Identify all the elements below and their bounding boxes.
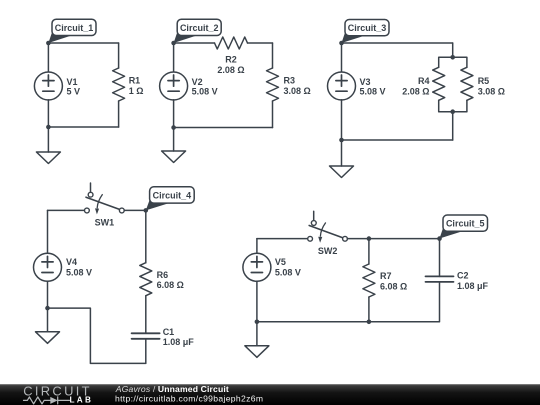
wire xyxy=(342,139,453,141)
label R6 value xyxy=(157,270,184,290)
label R1 value xyxy=(129,75,144,96)
node top Circuit_4 xyxy=(144,208,149,213)
svg-text:Circuit_2: Circuit_2 xyxy=(180,23,219,33)
svg-text:5 V: 5 V xyxy=(67,86,81,96)
logo waveform xyxy=(24,397,70,404)
wire xyxy=(48,42,118,44)
svg-text:6.08 Ω: 6.08 Ω xyxy=(380,281,407,291)
node bottom V5 xyxy=(255,320,260,325)
wire xyxy=(173,43,175,72)
wire xyxy=(124,209,146,211)
svg-text:C1: C1 xyxy=(163,327,175,337)
wire xyxy=(48,209,85,211)
svg-text:R7: R7 xyxy=(380,271,392,281)
svg-text:R4: R4 xyxy=(418,76,430,86)
wire xyxy=(47,100,49,127)
node R7 bottom xyxy=(367,320,372,325)
voltage source V1 xyxy=(34,72,62,100)
svg-text:SW1: SW1 xyxy=(95,218,115,228)
label R2 value xyxy=(217,55,244,75)
switch SW1 xyxy=(85,183,125,214)
label V3 value xyxy=(360,77,386,97)
svg-text:LAB: LAB xyxy=(70,396,94,405)
svg-text:1 Ω: 1 Ω xyxy=(129,86,144,96)
node parallel top xyxy=(450,55,455,60)
wire xyxy=(173,100,175,128)
ground xyxy=(36,308,60,343)
label R7 value xyxy=(380,271,407,291)
node label Circuit_5 xyxy=(440,215,488,239)
wire xyxy=(452,112,454,140)
wire xyxy=(145,210,147,262)
node top Circuit_3 xyxy=(339,41,344,46)
voltage source V4 xyxy=(34,253,62,281)
svg-text:R2: R2 xyxy=(225,55,237,65)
node label Circuit_3 xyxy=(342,20,390,44)
resistor R7 xyxy=(363,264,375,297)
wire xyxy=(272,43,274,68)
label R3 value xyxy=(284,75,311,96)
svg-text:5.08 V: 5.08 V xyxy=(360,86,386,96)
node bottom V1 xyxy=(46,125,51,130)
ground xyxy=(36,127,60,164)
node label Circuit_2 xyxy=(174,19,222,43)
svg-text:3.08 Ω: 3.08 Ω xyxy=(478,87,505,97)
svg-text:R6: R6 xyxy=(157,270,169,280)
wire xyxy=(341,100,343,140)
svg-text:6.08 Ω: 6.08 Ω xyxy=(157,280,184,290)
resistor R6 xyxy=(140,263,152,296)
svg-text:Circuit_5: Circuit_5 xyxy=(446,219,485,229)
label V2 value xyxy=(192,77,218,97)
wire xyxy=(48,308,146,363)
wire xyxy=(257,282,440,322)
wire xyxy=(452,43,454,57)
ground xyxy=(330,140,354,178)
wire xyxy=(47,210,49,253)
svg-text:3.08 Ω: 3.08 Ω xyxy=(284,86,311,96)
svg-text:5.08 V: 5.08 V xyxy=(66,267,92,277)
resistor R2 xyxy=(215,37,248,49)
svg-text:Circuit_1: Circuit_1 xyxy=(55,23,94,33)
wire xyxy=(256,239,258,254)
wire xyxy=(257,238,308,240)
svg-text:2.08 Ω: 2.08 Ω xyxy=(217,65,244,75)
node bottom V3 xyxy=(339,138,344,143)
svg-text:Circuit_3: Circuit_3 xyxy=(348,23,387,33)
svg-text:5.08 V: 5.08 V xyxy=(192,86,218,96)
voltage source V3 xyxy=(328,72,356,100)
wire xyxy=(341,43,343,72)
svg-text:5.08 V: 5.08 V xyxy=(275,267,301,277)
wire xyxy=(368,239,370,264)
capacitor C1 xyxy=(132,333,160,339)
wire xyxy=(118,43,120,68)
wire xyxy=(47,43,49,72)
svg-text:R5: R5 xyxy=(478,76,490,86)
wire xyxy=(368,297,370,322)
wire xyxy=(47,281,49,308)
resistor R5 xyxy=(461,67,473,100)
node bottom V4 xyxy=(45,306,50,311)
svg-text:1.08 μF: 1.08 μF xyxy=(457,281,489,291)
wire xyxy=(174,42,215,44)
wire parallel bracket top xyxy=(439,57,467,67)
label C1 value xyxy=(163,327,195,347)
svg-text:R1: R1 xyxy=(129,75,141,85)
node top Circuit_2 xyxy=(171,41,176,46)
wire xyxy=(248,42,273,44)
ground xyxy=(162,128,186,163)
svg-text:1.08 μF: 1.08 μF xyxy=(163,337,195,347)
wire xyxy=(272,101,274,128)
resistor R1 xyxy=(113,68,125,101)
node label Circuit_1 xyxy=(48,19,96,43)
ground xyxy=(245,322,269,358)
label V1 value xyxy=(67,77,81,97)
svg-text:R3: R3 xyxy=(284,75,296,85)
label V4 value xyxy=(66,257,92,277)
svg-text:V1: V1 xyxy=(67,77,78,87)
voltage source V2 xyxy=(160,72,188,100)
svg-text:V2: V2 xyxy=(192,77,203,87)
wire xyxy=(256,281,258,322)
wire parallel bracket bottom xyxy=(439,100,467,111)
svg-text:V5: V5 xyxy=(275,257,286,267)
wire xyxy=(118,101,120,127)
node parallel bottom xyxy=(450,109,455,114)
switch SW2 xyxy=(308,211,348,242)
svg-text:V3: V3 xyxy=(360,77,371,87)
node bottom V2 xyxy=(171,125,176,130)
label R5 value xyxy=(478,76,505,97)
wire xyxy=(174,127,273,129)
wire xyxy=(342,42,453,44)
resistor R4 xyxy=(433,67,445,100)
node label Circuit_4 xyxy=(146,187,194,211)
wire xyxy=(347,238,439,240)
wire xyxy=(48,126,118,128)
footer bar xyxy=(0,384,540,405)
node R7 top xyxy=(367,236,372,241)
label C2 value xyxy=(457,271,489,292)
svg-text:V4: V4 xyxy=(66,257,77,267)
svg-text:C2: C2 xyxy=(457,271,469,281)
wire xyxy=(145,296,147,334)
node top Circuit_5 xyxy=(437,236,442,241)
svg-text:2.08 Ω: 2.08 Ω xyxy=(402,87,429,97)
svg-text:http://circuitlab.com/c99bajep: http://circuitlab.com/c99bajeph2z6m xyxy=(115,393,263,403)
svg-text:SW2: SW2 xyxy=(318,246,338,256)
resistor R3 xyxy=(267,68,279,101)
wire xyxy=(439,239,441,277)
node top Circuit_1 xyxy=(46,41,51,46)
svg-text:Circuit_4: Circuit_4 xyxy=(153,190,192,200)
label R4 value xyxy=(402,76,429,97)
label V5 value xyxy=(275,257,301,277)
voltage source V5 xyxy=(243,253,271,281)
capacitor C2 xyxy=(426,276,454,282)
